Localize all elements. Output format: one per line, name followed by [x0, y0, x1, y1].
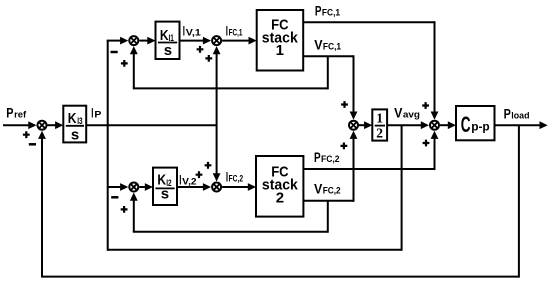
svg-text:2: 2: [376, 125, 383, 140]
svg-text:2: 2: [276, 190, 284, 207]
svg-text:V,1: V,1: [186, 27, 202, 38]
svg-text:FC,1: FC,1: [322, 8, 341, 19]
svg-text:V: V: [314, 38, 322, 53]
svg-text:I: I: [91, 105, 93, 120]
svg-text:K: K: [68, 110, 77, 127]
svg-text:s: s: [161, 186, 169, 203]
svg-text:s: s: [164, 42, 172, 59]
svg-text:FC,1: FC,1: [229, 28, 243, 39]
svg-text:1: 1: [276, 42, 284, 59]
svg-text:I3: I3: [77, 116, 82, 126]
svg-text:1: 1: [376, 111, 383, 126]
svg-text:FC,2: FC,2: [321, 154, 340, 165]
svg-text:ref: ref: [14, 110, 27, 121]
svg-text:P: P: [314, 150, 321, 165]
svg-text:P: P: [315, 4, 322, 19]
svg-text:V: V: [314, 182, 322, 197]
svg-text:P: P: [6, 106, 13, 121]
svg-text:V,2: V,2: [182, 176, 196, 187]
svg-text:s: s: [71, 126, 79, 143]
svg-text:P: P: [94, 109, 102, 120]
svg-text:load: load: [511, 110, 529, 121]
svg-text:FC,2: FC,2: [229, 174, 244, 185]
svg-text:I: I: [179, 172, 181, 187]
svg-text:I: I: [183, 23, 185, 38]
svg-text:C: C: [461, 112, 471, 137]
svg-text:FC,2: FC,2: [323, 186, 341, 197]
svg-text:avg: avg: [403, 109, 420, 120]
svg-text:p-p: p-p: [471, 120, 490, 134]
svg-text:P: P: [504, 106, 511, 121]
svg-text:V: V: [394, 105, 402, 120]
svg-text:FC,1: FC,1: [323, 42, 342, 53]
